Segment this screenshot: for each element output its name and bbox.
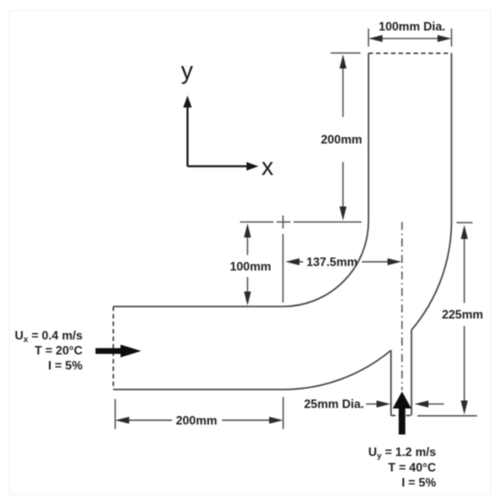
dimension 100mm Dia. line with arrowheads [381, 38, 439, 40]
inlet flow arrow (large inlet, black) [96, 345, 140, 356]
center horizontal reference line right segment [294, 221, 362, 223]
svg-text:100mm: 100mm [230, 260, 271, 274]
svg-text:x: x [262, 154, 274, 181]
large pipe outlet dashed line (top) [369, 52, 452, 54]
svg-text:225mm: 225mm [442, 308, 483, 322]
coordinate axes y-axis [187, 103, 189, 166]
dimension 100mm (vertical) line with arrowheads [247, 226, 249, 302]
dimension 225mm line with arrowheads [463, 236, 465, 403]
svg-text:200mm: 200mm [176, 414, 217, 428]
dimension 200mm (vertical) line with arrowheads [342, 66, 344, 209]
vertical extension line below cross [282, 234, 284, 303]
inlet flow arrow (small inlet, black, pointing up) [394, 393, 411, 435]
svg-text:y: y [181, 58, 193, 85]
svg-text:T = 40°C: T = 40°C [388, 460, 436, 474]
dimension 225mm top tick [457, 222, 473, 224]
small pipe inlet dashed line [391, 415, 412, 417]
svg-text:T = 20°C: T = 20°C [35, 343, 83, 357]
bend center cross [277, 216, 291, 229]
pipe inner wall (horizontal top edge + inner bend arc + vertical left edge) [113, 53, 368, 306]
dimension 225mm bottom extension line [418, 415, 478, 417]
callout 25mm Dia. right arrow (points left at small pipe) [427, 403, 444, 405]
svg-text:200mm: 200mm [321, 133, 362, 147]
dimension 200mm (bottom) extension ticks [115, 397, 283, 429]
svg-text:I = 5%: I = 5% [402, 475, 437, 489]
callout 25mm Dia. left arrow (points right at small pipe) [366, 403, 379, 405]
pipe outer wall upper segment (outer bend arc from small-pipe right edge + vertical right edge) [412, 53, 452, 330]
dash-dot centerline of small pipe [401, 222, 403, 390]
center horizontal reference line left segment [240, 221, 274, 223]
dimension 200mm (vertical) top tick [331, 52, 361, 54]
svg-text:25mm Dia.: 25mm Dia. [304, 397, 364, 411]
pipe outer wall lower segment (horizontal bottom edge + outer bend arc to small-pipe left edge) [113, 350, 391, 389]
dimension 200mm (bottom) line with arrowheads [128, 419, 271, 421]
dimension 100mm Dia. extension ticks [369, 29, 452, 47]
dimension 137.5mm line with arrowheads [297, 261, 390, 263]
coordinate axes x-axis [188, 165, 251, 167]
svg-text:100mm Dia.: 100mm Dia. [379, 20, 446, 34]
small pipe left edge [390, 350, 392, 415]
large pipe inlet dashed line (left) [112, 307, 114, 390]
svg-text:I = 5%: I = 5% [48, 358, 83, 372]
svg-text:137.5mm: 137.5mm [306, 255, 357, 269]
small pipe right edge [411, 330, 413, 416]
